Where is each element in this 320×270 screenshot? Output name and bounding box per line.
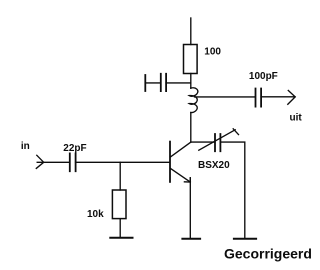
node terminal left stub: [144, 75, 146, 91]
svg-text:22pF: 22pF: [63, 143, 86, 154]
wire coil tap to capacitor 100pF: [195, 96, 256, 98]
svg-text:100pF: 100pF: [249, 71, 278, 82]
resistor R2 10k: [112, 190, 126, 219]
trimmer arrow: [199, 130, 235, 150]
svg-text:in: in: [21, 141, 30, 152]
wire terminal to capacitor C1: [145, 82, 160, 84]
ground 10k: [110, 237, 132, 239]
svg-text:Gecorrigeerd: Gecorrigeerd: [224, 246, 312, 262]
svg-text:uit: uit: [290, 112, 303, 123]
wire resistor to coil: [190, 74, 192, 89]
wire collector to trimmer: [191, 141, 215, 143]
wire capacitor to base: [76, 161, 170, 163]
wire trimmer to ground: [220, 142, 244, 238]
transistor Q1 base bar: [169, 142, 171, 182]
trimmer arrow tip bar: [233, 129, 238, 135]
capacitor C1: [161, 74, 166, 91]
resistor R1: [184, 45, 198, 74]
wire resistor 10k to ground: [119, 219, 121, 237]
output arrowhead: [288, 91, 295, 105]
wire capacitor C1 to collector line: [166, 82, 191, 84]
ground emitter: [182, 238, 200, 240]
svg-text:10k: 10k: [87, 209, 104, 220]
wire node to resistor 10k: [119, 162, 121, 190]
transistor Q1 emitter arrowhead: [184, 178, 190, 182]
trimmer capacitor C3: [215, 134, 220, 151]
transistor Q1 collector: [170, 142, 190, 157]
wire to output: [261, 96, 295, 98]
ground right: [234, 238, 256, 240]
wire coil to collector node: [190, 113, 192, 143]
capacitor C4 22pF: [70, 153, 76, 171]
wire input to capacitor 22pF: [37, 161, 69, 163]
inductor L1: [189, 88, 198, 113]
transistor Q1 emitter: [170, 168, 190, 182]
wire emitter to ground: [189, 178, 191, 239]
wire supply top: [190, 18, 192, 45]
input arrowhead: [36, 155, 43, 168]
svg-text:BSX20: BSX20: [198, 160, 230, 171]
capacitor C2 100pF: [256, 89, 262, 107]
svg-text:100: 100: [204, 46, 221, 57]
